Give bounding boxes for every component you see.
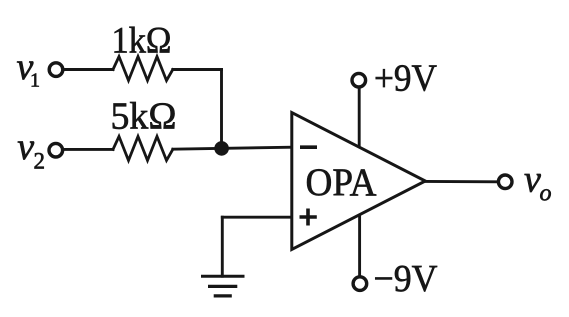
- svg-text:v: v: [17, 126, 34, 168]
- svg-text:−9V: −9V: [374, 258, 439, 300]
- svg-text:5kΩ: 5kΩ: [111, 96, 177, 138]
- svg-text:1kΩ: 1kΩ: [112, 20, 172, 61]
- svg-text:+9V: +9V: [374, 58, 438, 100]
- svg-text:o: o: [540, 181, 552, 207]
- svg-text:1: 1: [30, 70, 40, 92]
- svg-text:2: 2: [34, 148, 46, 173]
- svg-text:OPA: OPA: [306, 161, 377, 204]
- svg-text:v: v: [524, 159, 541, 201]
